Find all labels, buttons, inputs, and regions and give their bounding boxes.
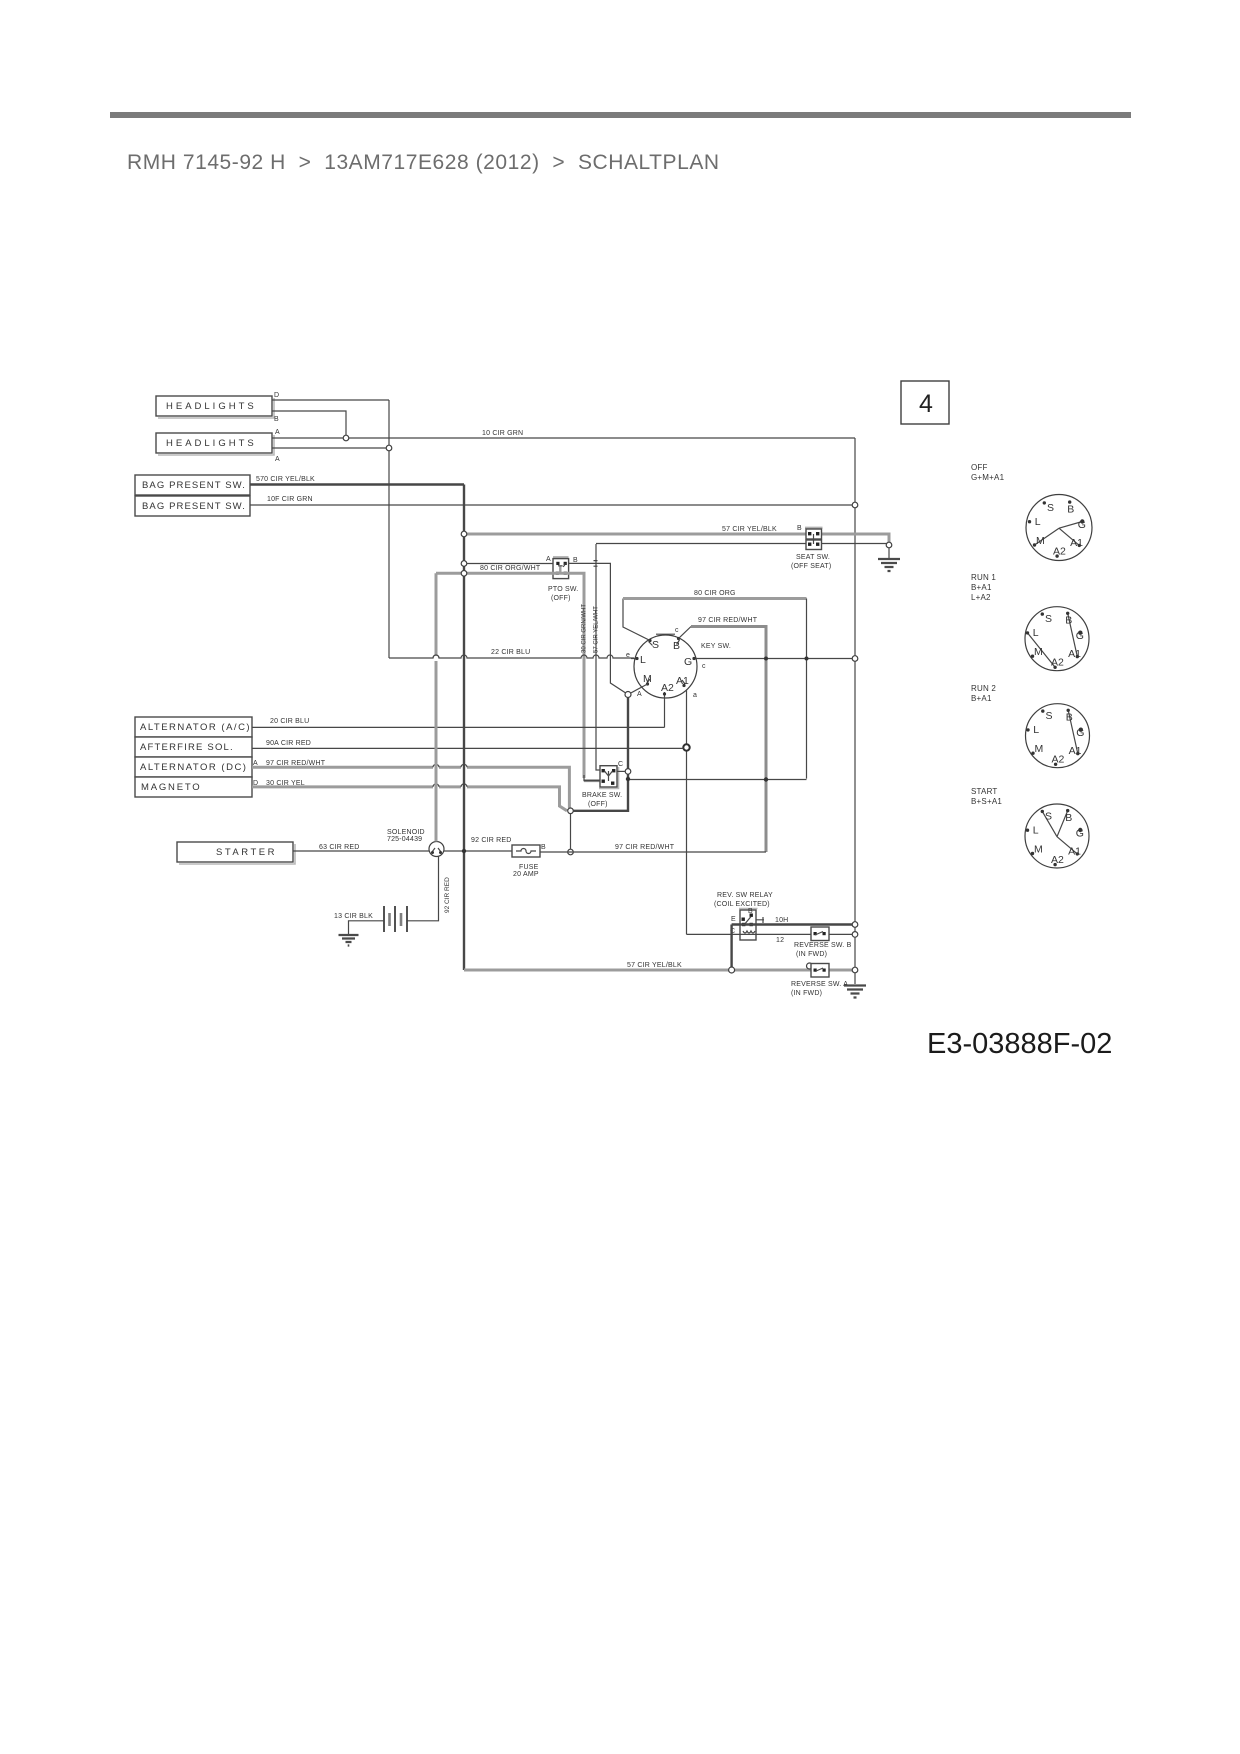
solenoid circle	[429, 842, 444, 857]
svg-text:REVERSE SW. B: REVERSE SW. B	[794, 942, 852, 949]
ignition position circle RUN1	[1025, 607, 1089, 671]
junction circle M node	[625, 692, 631, 698]
wire seat-brake vertical x596	[596, 544, 600, 770]
label A 97 CIR RED/WHT	[253, 760, 326, 767]
drawing number E3-03888F-02	[927, 1028, 1112, 1060]
svg-text:(IN FWD): (IN FWD)	[796, 951, 827, 958]
label RUN 2	[971, 684, 996, 693]
svg-text:c: c	[702, 663, 706, 670]
wire solenoid to fuse	[444, 850, 512, 852]
key switch labels S B L G M A1 A2	[640, 639, 692, 694]
svg-text:57 CIR YEL/BLK: 57 CIR YEL/BLK	[722, 526, 777, 533]
svg-text:M: M	[1034, 844, 1043, 856]
svg-text:10 CIR GRN: 10 CIR GRN	[482, 430, 523, 437]
wire relay coil corner down to 57 line	[730, 925, 732, 971]
pin label A headlight2 bottom	[275, 456, 280, 463]
wire relay thick output to trunk	[732, 923, 855, 925]
magneto box	[135, 777, 252, 797]
wire 22 CIR BLU with hops	[389, 655, 634, 658]
svg-text:12: 12	[776, 937, 784, 944]
label START	[971, 787, 997, 796]
junction circle headlightB/10GRN	[343, 435, 349, 441]
label (OFF) brake	[588, 801, 608, 808]
svg-text:BAG PRESENT SW.: BAG PRESENT SW.	[142, 501, 246, 512]
svg-text:START: START	[971, 787, 997, 796]
relay box	[739, 909, 758, 941]
svg-text:A2: A2	[1051, 657, 1064, 669]
junction circle relay coil / 57 line	[729, 967, 735, 973]
label RUN 1	[971, 573, 996, 582]
svg-text:A2: A2	[661, 682, 674, 694]
wire headlight A lower to junction	[272, 447, 389, 449]
svg-text:80 CIR ORG/WHT: 80 CIR ORG/WHT	[480, 565, 541, 572]
page number box 4	[901, 381, 949, 424]
svg-text:RUN 2: RUN 2	[971, 684, 996, 693]
wire 80 CIR ORG/WHT gray pto bottom	[436, 573, 600, 780]
fuse body	[512, 845, 540, 857]
junction circle brake C pin	[625, 769, 631, 775]
bag present switch box BP2	[135, 496, 250, 516]
svg-text:BRAKE SW.: BRAKE SW.	[582, 792, 622, 799]
svg-text:SEAT SW.: SEAT SW.	[796, 554, 830, 561]
wire 97 CIR RED/WHT alternator dc	[252, 764, 569, 808]
svg-text:REV. SW RELAY: REV. SW RELAY	[717, 892, 773, 899]
wire M thick vertical to brake and bottom elbow	[571, 698, 629, 811]
pin label B fuse	[541, 844, 546, 851]
label 80 CIR ORG/WHT	[480, 565, 541, 572]
svg-text:M: M	[643, 673, 652, 685]
svg-text:A1: A1	[676, 675, 689, 687]
svg-text:(OFF): (OFF)	[588, 801, 608, 808]
svg-text:S: S	[1045, 613, 1052, 625]
label (OFF SEAT)	[791, 563, 831, 570]
svg-text:MAGNETO: MAGNETO	[141, 782, 201, 793]
label (COIL EXCITED)	[714, 901, 770, 908]
brake switch body	[599, 766, 619, 789]
label REVERSE SW. B	[794, 942, 852, 949]
svg-text:B: B	[1065, 615, 1072, 627]
label 10F CIR GRN	[267, 496, 313, 503]
wire 97 CIR RED/WHT gray to x766 down	[691, 627, 766, 853]
svg-text:L: L	[1033, 825, 1039, 837]
wire dark trunk x464 vertical	[463, 485, 465, 971]
pin label A headlight2 top	[275, 429, 280, 436]
svg-text:HEADLIGHTS: HEADLIGHTS	[166, 401, 257, 412]
junction dot 97 vertical / 779 wire	[764, 777, 768, 781]
headlights box HL2	[156, 433, 274, 455]
small pin letters around key switch	[626, 627, 706, 699]
svg-text:E: E	[731, 916, 736, 923]
label 97 CIR RED/WHT key	[698, 617, 758, 624]
pin label B headlight1 bottom	[274, 416, 279, 423]
label 57 CIR YEL/BLK bottom	[627, 962, 682, 969]
label (IN FWD) B	[796, 951, 827, 958]
label B+A1 run2	[971, 694, 992, 703]
svg-text:97 CIR RED/WHT: 97 CIR RED/WHT	[698, 617, 758, 624]
svg-text:A1: A1	[1069, 745, 1082, 757]
wire 57 CIR YEL/BLK bottom	[464, 969, 855, 972]
seat switch body	[805, 528, 823, 550]
svg-text:M: M	[1036, 535, 1045, 547]
svg-text:OFF: OFF	[971, 463, 988, 472]
svg-text:B+A1: B+A1	[971, 694, 992, 703]
vertical wire label 30 CIR GRN/WHT	[582, 604, 588, 653]
label SOLENOID 725-04439	[387, 829, 425, 843]
wire 80 CIR ORG gray horizontal and right vertical	[623, 599, 807, 780]
svg-text:D: D	[253, 780, 258, 787]
label REV. SW RELAY	[717, 892, 773, 899]
junction dot G wire x766	[764, 657, 768, 661]
wire fuse to x766	[540, 851, 766, 853]
svg-text:10F CIR GRN: 10F CIR GRN	[267, 496, 313, 503]
junction circle relay/trunk	[852, 922, 858, 928]
svg-text:FUSE: FUSE	[519, 864, 539, 871]
svg-text:ALTERNATOR (A/C): ALTERNATOR (A/C)	[140, 722, 251, 733]
svg-text:C: C	[618, 761, 623, 768]
key switch terminal ticks	[631, 637, 700, 698]
label 10H	[775, 917, 788, 924]
svg-text:REVERSE SW. A: REVERSE SW. A	[791, 981, 848, 988]
label KEY SW.	[701, 643, 731, 650]
pin label B relay	[748, 908, 753, 915]
starter box	[177, 842, 295, 864]
svg-text:c: c	[675, 627, 679, 634]
svg-text:57 CIR YEL/BLK: 57 CIR YEL/BLK	[627, 962, 682, 969]
svg-text:30 CIR GRN/WHT: 30 CIR GRN/WHT	[582, 604, 588, 653]
svg-text:M: M	[1034, 646, 1043, 658]
svg-text:M: M	[1035, 743, 1044, 755]
junction circle seat ground node	[886, 542, 892, 548]
svg-text:D: D	[274, 392, 279, 399]
svg-text:90A CIR RED: 90A CIR RED	[266, 740, 311, 747]
svg-text:KEY SW.: KEY SW.	[701, 643, 731, 650]
wire left vertical bus x389	[388, 400, 390, 658]
svg-text:97 CIR RED/WHT: 97 CIR RED/WHT	[615, 844, 675, 851]
svg-text:92 CIR RED: 92 CIR RED	[471, 837, 512, 844]
svg-text:20 CIR BLU: 20 CIR BLU	[270, 718, 309, 725]
wire 20 CIR BLU	[252, 726, 665, 728]
svg-text:10H: 10H	[775, 917, 788, 924]
wire battery to ground	[349, 921, 385, 934]
wire brake C pin to circle	[617, 770, 625, 772]
label 12	[776, 937, 784, 944]
svg-text:B: B	[274, 416, 279, 423]
svg-text:A2: A2	[1051, 854, 1064, 866]
label OFF	[971, 463, 988, 472]
alternator (DC) box	[135, 757, 252, 777]
svg-text:A: A	[253, 760, 258, 767]
label (OFF) pto	[551, 595, 571, 602]
wire G terminal to right trunk	[700, 658, 855, 660]
svg-text:S: S	[1047, 502, 1054, 514]
svg-text:G+M+A1: G+M+A1	[971, 473, 1005, 482]
wire 10 CIR GRN horizontal	[272, 437, 855, 439]
junction circle trunk/PTO A	[461, 561, 467, 567]
svg-text:92 CIR RED: 92 CIR RED	[444, 877, 451, 913]
junction dot trunk/solenoid wire	[462, 849, 466, 853]
wire node to M-line y811	[573, 810, 628, 812]
label REVERSE SW. A	[791, 981, 848, 988]
pin label B seat switch	[797, 525, 802, 532]
svg-text:A: A	[637, 691, 642, 698]
wire 90A CIR RED afterfire	[252, 747, 684, 749]
svg-text:B: B	[673, 640, 680, 652]
junction circle 570 trunk / 57 wire	[461, 531, 467, 537]
key switch circle	[634, 634, 697, 698]
junction circle 97/30 node x570	[568, 808, 574, 814]
wire 570 CIR YEL/BLK from bag sw 1	[250, 483, 464, 485]
afterfire solenoid box	[135, 737, 252, 757]
headlights box HL1	[156, 396, 274, 418]
junction circle 12/trunk	[852, 932, 858, 938]
label 97 CIR RED/WHT fuse line	[615, 844, 675, 851]
wire 30 CIR YEL magneto	[252, 784, 567, 811]
svg-text:A: A	[275, 429, 280, 436]
pin label A pto	[546, 556, 551, 563]
svg-text:B+S+A1: B+S+A1	[971, 797, 1002, 806]
ignition position circle START	[1025, 804, 1089, 868]
svg-text:B: B	[797, 525, 802, 532]
svg-text:570 CIR YEL/BLK: 570 CIR YEL/BLK	[256, 476, 315, 483]
wire node down to fuse line	[570, 814, 572, 853]
svg-text:L+A2: L+A2	[971, 593, 991, 602]
battery symbol	[384, 906, 407, 932]
wire A1 vertical down	[686, 690, 688, 934]
svg-text:22 CIR BLU: 22 CIR BLU	[491, 649, 530, 656]
junction circle G wire right trunk	[852, 656, 858, 662]
svg-text:63 CIR RED: 63 CIR RED	[319, 844, 360, 851]
label FUSE 20 AMP	[513, 864, 539, 878]
wire starter to solenoid	[293, 850, 429, 852]
junction circle afterfire node	[683, 744, 689, 750]
pin label D headlight1 top	[274, 392, 279, 399]
svg-text:4: 4	[919, 390, 933, 418]
wire headlight B down to 10 CIR GRN	[272, 411, 346, 435]
wire right trunk x855 vertical	[854, 438, 856, 984]
wire PTO A from trunk	[464, 563, 553, 565]
svg-text:A2: A2	[1052, 754, 1065, 766]
svg-text:30 CIR YEL: 30 CIR YEL	[266, 780, 305, 787]
wire x436 vertical pto-gray to solenoid	[433, 573, 439, 841]
wire seat switch lower contact left to x596	[596, 543, 887, 545]
svg-text:A1: A1	[1070, 537, 1083, 549]
header rule bar	[110, 112, 1131, 118]
svg-text:L: L	[1033, 627, 1039, 639]
wire B terminal to 97 CIR RED/WHT	[679, 627, 692, 639]
pin label E relay	[731, 916, 736, 923]
label SEAT SW.	[796, 554, 830, 561]
svg-text:57 CIR YEL/WHT: 57 CIR YEL/WHT	[594, 606, 600, 653]
bag present switch box BP1	[135, 475, 250, 495]
svg-text:(COIL EXCITED): (COIL EXCITED)	[714, 901, 770, 908]
svg-text:725-04439: 725-04439	[387, 836, 422, 843]
svg-text:B+A1: B+A1	[971, 583, 992, 592]
svg-text:97 CIR RED/WHT: 97 CIR RED/WHT	[266, 760, 326, 767]
ignition position circle RUN2	[1026, 704, 1090, 768]
wire headlight D to vertical bus	[272, 399, 389, 401]
svg-text:A1: A1	[1068, 846, 1081, 858]
label 92 CIR RED	[471, 837, 512, 844]
label 10 CIR GRN	[482, 430, 523, 437]
svg-text:20 AMP: 20 AMP	[513, 871, 539, 878]
junction dot brake C node	[626, 777, 630, 781]
svg-text:13 CIR BLK: 13 CIR BLK	[334, 913, 373, 920]
svg-text:B: B	[1065, 812, 1072, 824]
svg-text:AFTERFIRE SOL.: AFTERFIRE SOL.	[140, 742, 234, 753]
svg-text:HEADLIGHTS: HEADLIGHTS	[166, 438, 257, 449]
pto switch body	[553, 557, 569, 578]
vertical label 92 CIR RED	[444, 877, 451, 913]
svg-text:B: B	[541, 844, 546, 851]
svg-text:B: B	[748, 908, 753, 915]
svg-text:ALTERNATOR (DC): ALTERNATOR (DC)	[140, 762, 247, 773]
label (IN FWD) A	[791, 990, 822, 997]
wire 10F CIR GRN from bag sw 2	[250, 504, 855, 506]
label PTO SW.	[548, 586, 578, 593]
label 90A CIR RED	[266, 740, 311, 747]
svg-text:L: L	[640, 654, 646, 666]
svg-text:L: L	[1033, 724, 1039, 736]
svg-text:A: A	[546, 556, 551, 563]
junction dot G wire x806	[805, 657, 809, 661]
svg-text:L: L	[1035, 516, 1041, 528]
svg-text:a: a	[693, 692, 697, 699]
svg-text:RUN 1: RUN 1	[971, 573, 996, 582]
label G+M+A1	[971, 473, 1005, 482]
label B+S+A1	[971, 797, 1002, 806]
svg-text:A1: A1	[1068, 648, 1081, 660]
label 20 CIR BLU	[270, 718, 309, 725]
wire S terminal to 80 CIR ORG	[623, 599, 650, 641]
svg-text:BAG PRESENT SW.: BAG PRESENT SW.	[142, 480, 246, 491]
svg-text:PTO SW.: PTO SW.	[548, 586, 578, 593]
svg-text:G: G	[684, 656, 692, 668]
alternator (A/C) box	[135, 717, 252, 737]
junction circle 10F/right trunk	[852, 502, 858, 508]
vertical wire label 57 CIR YEL/WHT	[594, 606, 600, 653]
svg-text:S: S	[1046, 710, 1053, 722]
label B+A1 run1	[971, 583, 992, 592]
svg-text:80 CIR ORG: 80 CIR ORG	[694, 590, 736, 597]
ground symbol battery	[339, 935, 359, 946]
svg-text:STARTER: STARTER	[216, 847, 277, 858]
label 63 CIR RED	[319, 844, 360, 851]
label 57 CIR YEL/BLK	[722, 526, 777, 533]
label BRAKE SW.	[582, 792, 622, 799]
label 22 CIR BLU	[491, 649, 530, 656]
pin label B pto	[573, 557, 578, 564]
pin label C brake	[618, 761, 623, 768]
svg-text:E3-03888F-02: E3-03888F-02	[927, 1028, 1112, 1060]
junction circle 57/trunk bottom	[852, 967, 858, 973]
svg-text:B: B	[1066, 712, 1073, 724]
svg-text:S: S	[1045, 811, 1052, 823]
ignition position circle OFF	[1026, 495, 1092, 561]
reverse switch B body	[811, 927, 829, 941]
svg-text:SOLENOID: SOLENOID	[387, 829, 425, 836]
breadcrumb title	[127, 151, 720, 175]
svg-text:(IN FWD): (IN FWD)	[791, 990, 822, 997]
wire 12 line from A1 vertical to trunk	[687, 933, 856, 935]
svg-text:e: e	[626, 652, 630, 659]
svg-text:A: A	[275, 456, 280, 463]
wire PTO B to x610 vertical	[569, 561, 629, 695]
svg-text:B: B	[573, 557, 578, 564]
reverse switch A body	[807, 963, 830, 977]
label D 30 CIR YEL	[253, 780, 305, 787]
ground symbol bottom right	[844, 986, 866, 998]
wire relay 10H stub	[756, 917, 764, 923]
junction circle headlightA/bus	[386, 445, 392, 451]
junction circle fuse line x570	[568, 849, 574, 855]
svg-text:(OFF): (OFF)	[551, 595, 571, 602]
svg-text:(OFF SEAT): (OFF SEAT)	[791, 563, 831, 570]
svg-text:S: S	[652, 639, 659, 651]
svg-text:A2: A2	[1053, 546, 1066, 558]
label 13 CIR BLK	[334, 913, 373, 920]
wire 57 CIR YEL/BLK to seat switch	[464, 534, 889, 544]
svg-text:B: B	[1067, 504, 1074, 516]
wire solenoid bottom to battery	[407, 857, 439, 921]
pin label C relay	[730, 928, 735, 935]
junction circle trunk/80 gray	[461, 571, 467, 577]
ground symbol seat	[878, 548, 900, 572]
label 80 CIR ORG	[694, 590, 736, 597]
label 570 CIR YEL/BLK	[256, 476, 315, 483]
label L+A2 run1	[971, 593, 991, 602]
wire A2 stub to 20 CIR BLU	[664, 698, 666, 727]
wire M terminal to junction	[628, 684, 648, 695]
